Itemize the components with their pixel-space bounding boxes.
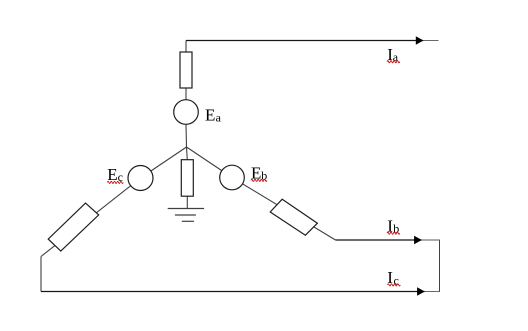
svg-text:E: E [205,105,215,124]
svg-text:a: a [216,111,222,125]
svg-text:c: c [394,273,399,287]
